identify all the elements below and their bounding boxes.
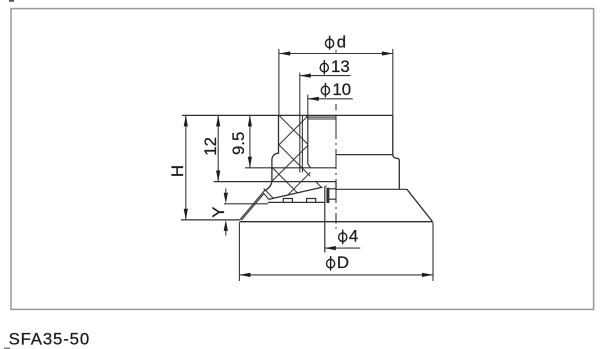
bottom lip line [181,219,240,221]
dim phi4 line [325,247,361,249]
inner top edge lower [308,118,336,120]
stray mark top [9,0,14,2]
ext line phi10 [307,95,309,116]
dim Y arrows [225,189,227,193]
svg-text:SFA35-50: SFA35-50 [9,330,90,349]
neck hatched bar [326,188,329,203]
svg-text:9.5: 9.5 [229,132,248,155]
hatch lines flange [175,100,432,220]
dim phi-d line [279,53,393,55]
right outer edge top [393,115,400,189]
lip outer edge [240,190,266,220]
sleeve inner edge [308,116,311,168]
dim 12 line [217,115,219,181]
dim 9.5 line [249,115,251,167]
ext line phi-d right [392,49,394,116]
dim phiD line [239,274,433,276]
neck top line [329,188,336,190]
dim H line [185,115,187,219]
hatch lines sleeve [205,100,403,220]
ext line phi13 [299,73,301,173]
cup floor line [268,201,325,203]
sleeve outer edge [265,115,279,190]
rim bottom line [239,221,433,223]
neck hole wall [324,186,326,252]
dim phi13 line [300,75,351,77]
svg-text:4: 4 [349,227,358,246]
label phiD [327,253,350,272]
svg-text:D: D [337,253,349,272]
inner top edge [308,116,336,118]
svg-text:Y: Y [209,207,228,218]
ext line Y top [224,203,268,205]
right step edge line 2 [336,188,407,190]
ext line phiD right [432,222,434,281]
cleat 1 [283,199,292,203]
cup cone right [407,189,432,221]
thread line [301,115,303,172]
ext line phi-d left [278,49,280,116]
svg-text:H: H [168,165,187,177]
svg-text:12: 12 [201,137,220,156]
right step edge line [336,154,393,156]
svg-text:13: 13 [331,57,350,76]
centerline [335,50,337,229]
dim phi10 line [308,98,353,100]
body top edge [182,114,393,116]
label phi10 [321,80,351,99]
cup top surface diagonal [269,187,323,199]
flange top line [214,181,336,183]
svg-text:d: d [337,33,346,52]
lip inner edge [242,194,269,221]
shoulder line [245,167,336,169]
stray mark bottom [4,348,10,349]
label phi4 [339,227,359,246]
center edge segment [335,182,337,190]
neck step line [329,198,336,200]
cleat 2 [307,199,316,203]
ext line phiD left [238,222,240,281]
top chamfer [306,115,308,118]
label phi-d [326,33,347,52]
label phi13 [320,57,349,76]
svg-text:10: 10 [332,80,351,99]
